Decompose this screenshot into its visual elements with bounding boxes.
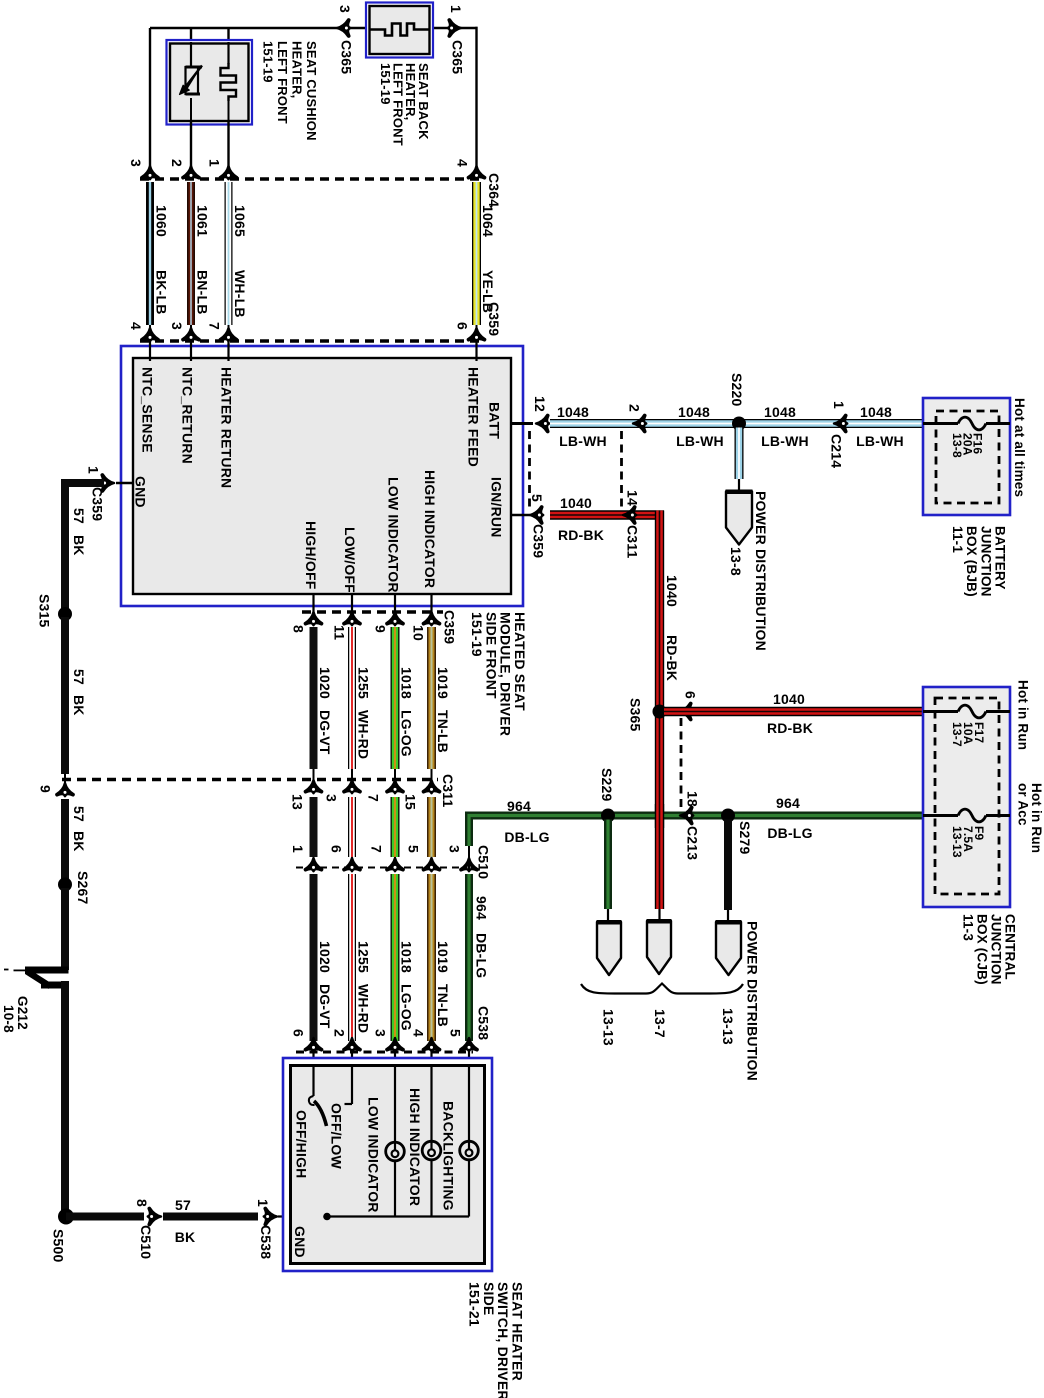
svg-text:2: 2 bbox=[332, 1029, 348, 1037]
svg-text:13-13: 13-13 bbox=[601, 1009, 617, 1046]
svg-text:BATTERY: BATTERY bbox=[993, 526, 1008, 590]
svg-text:6: 6 bbox=[291, 1029, 307, 1037]
svg-text:1061: 1061 bbox=[195, 205, 211, 237]
svg-text:57: 57 bbox=[71, 508, 87, 524]
NTC thermistor symbol bbox=[186, 67, 199, 94]
connector arrow C538 pin 3 bbox=[386, 1038, 403, 1051]
splice S279 bbox=[721, 809, 735, 823]
svg-text:C538: C538 bbox=[258, 1225, 274, 1259]
wire gnd into switch bbox=[278, 1215, 327, 1217]
connector arrow C311 pin 15 bbox=[423, 780, 440, 793]
svg-text:DB-LG: DB-LG bbox=[767, 825, 812, 841]
svg-text:C311: C311 bbox=[625, 525, 641, 559]
svg-text:12: 12 bbox=[532, 396, 548, 412]
svg-text:4: 4 bbox=[411, 1029, 427, 1037]
wire 1040 RD-BK vertical bbox=[655, 511, 664, 910]
svg-text:LEFT FRONT: LEFT FRONT bbox=[275, 41, 290, 124]
backlighting lamp bbox=[468, 1067, 470, 1141]
svg-text:HIGH INDICATOR: HIGH INDICATOR bbox=[422, 470, 438, 588]
svg-text:7: 7 bbox=[369, 845, 385, 853]
svg-text:1048: 1048 bbox=[860, 404, 892, 420]
svg-text:964: 964 bbox=[776, 795, 800, 811]
switch blade OFF/HIGH-OFF/LOW bbox=[314, 1101, 327, 1126]
svg-text:13-13: 13-13 bbox=[720, 1008, 736, 1045]
connector line C359 (module bottom) bbox=[302, 610, 443, 613]
connector arrow C359 pin 8 bbox=[312, 594, 314, 613]
svg-text:1: 1 bbox=[290, 845, 306, 853]
svg-text:9: 9 bbox=[37, 785, 53, 793]
connector arrow C538 pin 6 bbox=[305, 1038, 322, 1051]
svg-text:LOW INDICATOR: LOW INDICATOR bbox=[365, 1097, 381, 1213]
connector line C538 bbox=[296, 1051, 473, 1054]
wire 1048 LB-WH bbox=[550, 419, 923, 428]
svg-text:LB-WH: LB-WH bbox=[676, 433, 724, 449]
svg-text:13-7: 13-7 bbox=[652, 1009, 668, 1038]
svg-text:14: 14 bbox=[625, 490, 641, 506]
connector arrow C364 pin 3 bbox=[141, 166, 158, 179]
svg-text:57: 57 bbox=[71, 669, 87, 685]
svg-text:LB-WH: LB-WH bbox=[761, 433, 809, 449]
svg-text:1048: 1048 bbox=[557, 404, 589, 420]
power distribution tag 13-8 bbox=[726, 492, 752, 545]
svg-text:1020: 1020 bbox=[317, 667, 333, 699]
wire: top interconnect C365 pin3 to seat back heater bbox=[150, 27, 367, 29]
wire 57 BK gnd trunk bbox=[65, 479, 104, 487]
svg-text:3: 3 bbox=[337, 5, 353, 13]
connector C359 vertical dashed bbox=[528, 431, 531, 509]
wire 57 BK S267-G212 bbox=[61, 888, 69, 970]
svg-text:BK: BK bbox=[175, 1229, 196, 1245]
svg-text:DG-VT: DG-VT bbox=[317, 984, 333, 1029]
connector arrow C311 pin 3 bbox=[343, 780, 360, 793]
splice S220 bbox=[732, 417, 746, 431]
wire: seat cushion heater element lead bbox=[227, 28, 229, 67]
svg-text:8: 8 bbox=[134, 1199, 150, 1207]
power tap from S220 bbox=[735, 428, 744, 480]
svg-text:LG-OG: LG-OG bbox=[399, 984, 415, 1031]
svg-text:TN-LB: TN-LB bbox=[435, 710, 451, 753]
svg-text:4: 4 bbox=[128, 322, 144, 330]
power drop red S365 bbox=[658, 909, 660, 921]
svg-text:11-3: 11-3 bbox=[961, 914, 976, 941]
connector line C359 (module top) bbox=[140, 339, 481, 342]
component: SEAT HEATER SWITCH box bbox=[283, 1058, 492, 1271]
svg-text:1048: 1048 bbox=[764, 404, 796, 420]
svg-text:1: 1 bbox=[255, 1199, 271, 1207]
svg-text:BK: BK bbox=[71, 831, 87, 852]
connector arrow C311 pin 2 bbox=[633, 415, 646, 432]
connector arrow C510 pin 6 bbox=[343, 858, 360, 871]
connector arrow C364 pin 4 bbox=[468, 166, 485, 179]
svg-text:1020: 1020 bbox=[317, 941, 333, 973]
power distribution tag 13-13 (left) bbox=[597, 922, 621, 975]
fuse F17 10A bbox=[923, 710, 958, 713]
connector arrow C359 pin 9 bbox=[394, 594, 396, 613]
svg-text:2: 2 bbox=[627, 404, 643, 412]
svg-text:RD-BK: RD-BK bbox=[664, 635, 680, 681]
splice S267 bbox=[58, 878, 72, 892]
wire 1040 RD-BK over green crossing bbox=[655, 804, 664, 828]
svg-text:OFF/LOW: OFF/LOW bbox=[329, 1103, 345, 1170]
connector arrow C364 pin 1 bbox=[220, 166, 237, 179]
component: HEATED SEAT MODULE box bbox=[121, 346, 523, 606]
connector arrow C213 pin 6 bbox=[679, 703, 692, 720]
connector arrow C359 pin 11 bbox=[351, 594, 353, 613]
wire 1255 WH-RD (lower) bbox=[348, 874, 356, 1041]
svg-text:LG-OG: LG-OG bbox=[399, 710, 415, 757]
svg-text:5: 5 bbox=[448, 1029, 464, 1037]
svg-text:C365: C365 bbox=[450, 40, 466, 74]
wire 964 DB-LG vertical bbox=[468, 845, 470, 871]
svg-text:9: 9 bbox=[373, 625, 389, 633]
svg-text:13-8: 13-8 bbox=[728, 547, 744, 576]
svg-text:RD-BK: RD-BK bbox=[558, 527, 604, 543]
wire: C364 pin3 riser bbox=[149, 28, 151, 170]
svg-text:4: 4 bbox=[455, 159, 471, 167]
svg-text:1255: 1255 bbox=[356, 941, 372, 973]
svg-text:8: 8 bbox=[291, 625, 307, 633]
wire 57 BK C311-S267 bbox=[61, 799, 69, 880]
power drop from S229 bbox=[604, 820, 612, 910]
wire 57 BK S315-C311 bbox=[61, 617, 69, 774]
svg-text:CENTRAL: CENTRAL bbox=[1003, 914, 1018, 980]
connector arrow C213 pin 18 bbox=[680, 807, 693, 824]
svg-text:1019: 1019 bbox=[435, 941, 451, 973]
wire segments C311-C510 bbox=[310, 797, 318, 857]
svg-text:RD-BK: RD-BK bbox=[767, 720, 813, 736]
connector arrow C359 pin 6 bbox=[476, 325, 478, 341]
svg-text:JUNCTION: JUNCTION bbox=[989, 914, 1004, 985]
svg-text:1019: 1019 bbox=[435, 667, 451, 699]
module pin 5 IGN/RUN wire bbox=[511, 514, 530, 516]
module pin 12 BATT wire bbox=[511, 422, 533, 425]
svg-text:BOX (BJB): BOX (BJB) bbox=[964, 526, 979, 597]
svg-text:LB-WH: LB-WH bbox=[856, 433, 904, 449]
svg-text:DB-LG: DB-LG bbox=[474, 933, 490, 978]
svg-text:C214: C214 bbox=[829, 434, 845, 468]
svg-text:WH-LB: WH-LB bbox=[232, 270, 248, 318]
connector arrow C311 pin 7 bbox=[386, 780, 403, 793]
svg-text:1065: 1065 bbox=[232, 205, 248, 237]
wire: seat back heater pin1 to C364 pin4 corner bbox=[432, 27, 478, 29]
connector arrow C510 pin 7 bbox=[386, 858, 403, 871]
svg-text:1040: 1040 bbox=[560, 495, 592, 511]
brace power distribution bbox=[581, 984, 743, 994]
switch pin 6 lead and contact bbox=[312, 1067, 314, 1096]
svg-text:13-8: 13-8 bbox=[950, 433, 964, 458]
power distribution tag 13-7 bbox=[647, 921, 671, 974]
heater element symbol (seat back) bbox=[370, 24, 430, 36]
svg-text:SEAT CUSHION: SEAT CUSHION bbox=[304, 41, 319, 141]
component: SEAT BACK HEATER box bbox=[366, 3, 433, 58]
svg-text:C510: C510 bbox=[476, 845, 492, 879]
svg-text:10-8: 10-8 bbox=[1, 1005, 16, 1033]
svg-text:1060: 1060 bbox=[154, 205, 170, 237]
svg-text:POWER DISTRIBUTION: POWER DISTRIBUTION bbox=[745, 921, 761, 1081]
svg-text:JUNCTION: JUNCTION bbox=[978, 526, 993, 597]
switch ground rail bbox=[327, 1215, 469, 1217]
wire 1018 LG-OG (lower) bbox=[391, 874, 400, 1041]
svg-text:151-19: 151-19 bbox=[378, 63, 393, 105]
wire 1060 BK-LB bbox=[146, 182, 154, 325]
fuse F9 7.5A bbox=[923, 814, 958, 817]
svg-text:C538: C538 bbox=[476, 1006, 492, 1040]
wire 1064 YE-LB bbox=[472, 182, 481, 325]
cushion internal leads bbox=[190, 42, 192, 68]
svg-text:WH-RD: WH-RD bbox=[356, 984, 372, 1033]
connector arrow C311 pin 14 bbox=[623, 506, 636, 523]
svg-text:3: 3 bbox=[324, 794, 340, 802]
svg-text:NTC_SENSE: NTC_SENSE bbox=[140, 367, 156, 453]
wire 1020 DG-VT (lower) bbox=[310, 874, 318, 1041]
svg-text:GND: GND bbox=[292, 1226, 308, 1258]
svg-text:57: 57 bbox=[175, 1197, 191, 1213]
power drop from S279 bbox=[724, 820, 732, 911]
wire 1061 BN-LB bbox=[187, 182, 195, 325]
svg-text:Hot in Run: Hot in Run bbox=[1016, 680, 1031, 750]
connector arrow C364 pin 2 bbox=[182, 166, 199, 179]
svg-text:11-1: 11-1 bbox=[950, 526, 965, 553]
svg-text:1018: 1018 bbox=[399, 667, 415, 699]
component: BATTERY JUNCTION BOX bbox=[923, 398, 1010, 515]
svg-text:2: 2 bbox=[169, 159, 185, 167]
svg-text:C359: C359 bbox=[442, 610, 458, 644]
svg-text:6: 6 bbox=[683, 691, 699, 699]
svg-text:HIGH INDICATOR: HIGH INDICATOR bbox=[407, 1088, 423, 1206]
svg-text:1040: 1040 bbox=[664, 575, 680, 607]
svg-text:C359: C359 bbox=[531, 524, 547, 558]
svg-text:BACKLIGHTING: BACKLIGHTING bbox=[441, 1101, 457, 1211]
connector arrow C214 pin 1 bbox=[834, 415, 847, 432]
connector arrow C359 pin 7 bbox=[228, 325, 230, 341]
svg-text:IGN/RUN: IGN/RUN bbox=[489, 477, 505, 538]
svg-text:1040: 1040 bbox=[773, 691, 805, 707]
svg-text:LOW INDICATOR: LOW INDICATOR bbox=[386, 477, 402, 593]
svg-text:3: 3 bbox=[447, 845, 463, 853]
svg-text:BATT: BATT bbox=[487, 402, 503, 439]
svg-text:BK: BK bbox=[71, 695, 87, 716]
svg-text:7: 7 bbox=[207, 322, 223, 330]
svg-text:S279: S279 bbox=[737, 821, 753, 855]
svg-text:BOX (CJB): BOX (CJB) bbox=[975, 914, 990, 985]
heater element symbol (seat cushion) bbox=[221, 63, 237, 101]
svg-text:151-21: 151-21 bbox=[467, 1282, 483, 1327]
svg-text:LOW/OFF: LOW/OFF bbox=[342, 527, 358, 593]
fuse F16 20A bbox=[923, 422, 958, 425]
module top pin stubs bbox=[149, 344, 151, 361]
svg-text:964: 964 bbox=[474, 896, 490, 920]
svg-text:HEATER RETURN: HEATER RETURN bbox=[219, 367, 235, 488]
svg-text:5: 5 bbox=[529, 494, 545, 502]
cushion box pin leads to C364 bbox=[190, 121, 192, 171]
svg-text:HEATER,: HEATER, bbox=[289, 41, 304, 99]
svg-text:7: 7 bbox=[366, 794, 382, 802]
wire 1019 TN-LB (upper) bbox=[427, 627, 436, 769]
connector arrow C510 pin 3 bbox=[460, 858, 477, 871]
svg-text:DB-LG: DB-LG bbox=[504, 829, 549, 845]
svg-text:151-19: 151-19 bbox=[261, 41, 276, 83]
connector arrow C538 pin 4 bbox=[423, 1038, 440, 1051]
svg-text:1255: 1255 bbox=[356, 667, 372, 699]
svg-text:964: 964 bbox=[507, 798, 531, 814]
connector line C510 bbox=[296, 867, 473, 869]
connector arrow C359 pin 3 bbox=[190, 325, 192, 341]
svg-text:151-19: 151-19 bbox=[469, 612, 485, 657]
svg-text:C510: C510 bbox=[138, 1225, 154, 1259]
svg-text:HIGH/OFF: HIGH/OFF bbox=[303, 521, 319, 590]
connector C213 vertical dashed bbox=[680, 718, 683, 808]
svg-text:OFF/HIGH: OFF/HIGH bbox=[294, 1110, 310, 1178]
svg-text:or Acc: or Acc bbox=[1016, 783, 1031, 826]
svg-text:11: 11 bbox=[332, 625, 348, 640]
low indicator lamp bbox=[394, 1067, 396, 1142]
switch pin 2 lead bbox=[351, 1067, 353, 1104]
svg-text:C365: C365 bbox=[339, 40, 355, 74]
svg-text:1048: 1048 bbox=[678, 404, 710, 420]
svg-text:1: 1 bbox=[86, 466, 102, 474]
svg-text:S315: S315 bbox=[37, 594, 53, 628]
connector arrow C365 pin 1 bbox=[448, 19, 461, 36]
svg-text:WH-RD: WH-RD bbox=[356, 710, 372, 759]
svg-text:13: 13 bbox=[290, 794, 306, 810]
svg-text:18: 18 bbox=[685, 791, 701, 807]
connector arrow C510 (gnd wire) pin 8 bbox=[148, 1208, 161, 1225]
svg-text:S229: S229 bbox=[599, 768, 615, 802]
svg-text:C311: C311 bbox=[440, 774, 456, 808]
svg-text:TN-LB: TN-LB bbox=[435, 984, 451, 1027]
svg-text:1018: 1018 bbox=[399, 941, 415, 973]
svg-text:BN-LB: BN-LB bbox=[195, 270, 211, 315]
splice S315 bbox=[58, 607, 72, 621]
svg-text:HEATER FEED: HEATER FEED bbox=[466, 367, 482, 467]
svg-text:BK-LB: BK-LB bbox=[154, 270, 170, 315]
svg-text:LB-WH: LB-WH bbox=[559, 433, 607, 449]
wire 1019 TN-LB (lower) bbox=[427, 874, 436, 1041]
svg-text:S365: S365 bbox=[628, 698, 644, 732]
svg-text:3: 3 bbox=[169, 322, 185, 330]
svg-text:C364: C364 bbox=[486, 173, 502, 207]
connector arrow C538 pin 5 bbox=[460, 1038, 477, 1051]
wire 57 BK G212-S500 bbox=[61, 981, 69, 1217]
svg-text:DG-VT: DG-VT bbox=[317, 710, 333, 755]
connector arrow C359 pin 10 bbox=[430, 594, 432, 613]
splice S365 bbox=[653, 705, 667, 719]
svg-text:13-7: 13-7 bbox=[950, 722, 964, 747]
splice S500 bbox=[58, 1209, 74, 1225]
connector arrow C359 pin 4 bbox=[149, 325, 151, 341]
wire 1255 WH-RD (upper) bbox=[348, 627, 356, 769]
svg-text:BK: BK bbox=[71, 535, 87, 556]
connector C311 vertical dashed bbox=[620, 431, 623, 509]
svg-text:Hot at all times: Hot at all times bbox=[1012, 398, 1027, 497]
svg-text:NTC_RETURN: NTC_RETURN bbox=[180, 367, 196, 464]
wire 1020 DG-VT (upper) bbox=[310, 627, 318, 769]
svg-text:57: 57 bbox=[71, 806, 87, 822]
ground G212 bbox=[25, 967, 69, 974]
connector line C311 bbox=[62, 778, 438, 781]
svg-text:S500: S500 bbox=[51, 1229, 67, 1263]
svg-text:6: 6 bbox=[329, 845, 345, 853]
wire 1018 LG-OG (upper) bbox=[391, 627, 400, 769]
svg-text:3: 3 bbox=[373, 1029, 389, 1037]
wire 1065 WH-LB bbox=[225, 182, 233, 325]
wire 1040 RD-BK to CJB bbox=[664, 707, 923, 716]
connector arrow C365 pin 3 bbox=[337, 19, 350, 36]
component: SEAT CUSHION HEATER box bbox=[167, 40, 253, 125]
svg-text:S220: S220 bbox=[729, 373, 745, 407]
connector arrow C311 (gnd wire) pin 9 bbox=[64, 774, 66, 784]
svg-text:S267: S267 bbox=[75, 871, 91, 905]
svg-text:13-13: 13-13 bbox=[950, 826, 964, 858]
connector arrow C538 (gnd wire) pin 1 bbox=[264, 1208, 277, 1225]
svg-text:1: 1 bbox=[448, 5, 464, 13]
svg-text:15: 15 bbox=[403, 794, 419, 810]
wire 57 BK S500-C510 bbox=[66, 1213, 144, 1221]
svg-text:G212: G212 bbox=[15, 996, 30, 1030]
svg-text:3: 3 bbox=[128, 159, 144, 167]
svg-text:1064: 1064 bbox=[480, 205, 496, 237]
component: CENTRAL JUNCTION BOX bbox=[923, 687, 1010, 907]
connector arrow C510 pin 1 bbox=[305, 858, 322, 871]
wire 964 DB-LG horizontal bbox=[469, 816, 923, 847]
connector arrow C510 pin 5 bbox=[423, 858, 440, 871]
svg-text:5: 5 bbox=[406, 845, 422, 853]
high indicator lamp bbox=[430, 1067, 432, 1141]
svg-text:6: 6 bbox=[455, 322, 471, 330]
svg-text:C213: C213 bbox=[685, 826, 701, 860]
svg-text:10: 10 bbox=[411, 625, 427, 641]
splice S229 bbox=[601, 809, 615, 823]
connector arrow C538 pin 2 bbox=[343, 1038, 360, 1051]
svg-text:POWER DISTRIBUTION: POWER DISTRIBUTION bbox=[753, 491, 769, 651]
svg-text:1: 1 bbox=[831, 401, 847, 409]
power distribution tag 13-13 (right) bbox=[716, 922, 741, 975]
wire 1040 RD-BK (pin5 row) bbox=[550, 510, 664, 519]
module GND pin wire bbox=[116, 482, 133, 484]
connector line C364 bbox=[140, 177, 481, 180]
wire: seat cushion NTC lead bbox=[190, 28, 192, 67]
svg-text:1: 1 bbox=[207, 159, 223, 167]
wire 57 BK C510-C538 bbox=[163, 1213, 258, 1221]
svg-text:C359: C359 bbox=[90, 487, 106, 521]
svg-text:GND: GND bbox=[133, 476, 149, 508]
svg-text:C359: C359 bbox=[486, 302, 502, 336]
connector arrow C311 pin 13 bbox=[305, 780, 322, 793]
